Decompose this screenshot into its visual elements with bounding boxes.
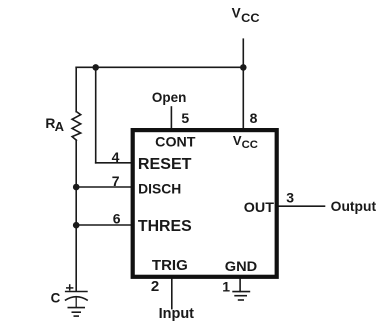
wire: DISCH pin 7 <box>76 186 132 188</box>
svg-text:2: 2 <box>151 278 159 295</box>
junction dot at Vcc rail <box>240 64 247 71</box>
wire: TRIG pin 2 <box>171 277 173 309</box>
svg-text:Input: Input <box>159 306 195 322</box>
IC U1 555 timer body <box>133 130 277 277</box>
svg-text:C: C <box>51 291 61 306</box>
svg-text:A: A <box>55 119 65 134</box>
resistor RA <box>72 112 81 141</box>
svg-text:7: 7 <box>112 173 120 189</box>
svg-text:TRIG: TRIG <box>152 258 188 274</box>
capacitor C top plate <box>65 291 88 293</box>
junction dot at RESET branch <box>92 64 99 71</box>
wire: RA to capacitor <box>75 140 77 291</box>
capacitor C curved plate <box>65 297 88 301</box>
wire: RESET branch vertical <box>95 67 97 163</box>
svg-text:GND: GND <box>225 259 257 275</box>
ground at pin 1 <box>232 292 250 300</box>
svg-text:4: 4 <box>112 149 120 165</box>
wire: RESET branch horizontal pin 4 <box>96 162 132 164</box>
svg-text:1: 1 <box>222 279 230 295</box>
svg-text:RESET: RESET <box>138 156 192 173</box>
wire: GND pin 1 <box>239 277 241 292</box>
VCC pin label <box>233 133 258 151</box>
svg-text:CC: CC <box>241 11 260 25</box>
svg-text:CC: CC <box>242 139 258 151</box>
wire: top rail <box>76 66 243 68</box>
wire: Vcc vertical down to pin 8 <box>242 39 244 129</box>
junction dot DISCH <box>73 184 80 191</box>
svg-text:V: V <box>233 133 242 148</box>
svg-text:CONT: CONT <box>155 133 196 149</box>
svg-text:OUT: OUT <box>244 199 275 215</box>
svg-text:6: 6 <box>113 210 121 226</box>
wire: capacitor to ground <box>75 297 77 307</box>
wire: OUT pin 3 <box>277 205 325 207</box>
wire: CONT pin 5 <box>170 107 172 129</box>
ground at capacitor <box>68 308 86 317</box>
svg-text:Output: Output <box>331 199 377 214</box>
svg-text:THRES: THRES <box>138 218 192 235</box>
svg-text:3: 3 <box>286 189 294 205</box>
svg-text:V: V <box>232 5 241 20</box>
Vcc supply label <box>232 5 261 24</box>
svg-text:Open: Open <box>152 90 186 105</box>
wire: THRES pin 6 <box>76 224 132 226</box>
resistor RA label <box>45 116 64 134</box>
svg-text:8: 8 <box>250 110 258 126</box>
svg-text:DISCH: DISCH <box>138 181 181 196</box>
svg-text:5: 5 <box>181 110 189 126</box>
junction dot THRES <box>73 222 80 229</box>
capacitor C plus sign <box>66 284 73 290</box>
wire: left drop to RA <box>75 67 77 111</box>
